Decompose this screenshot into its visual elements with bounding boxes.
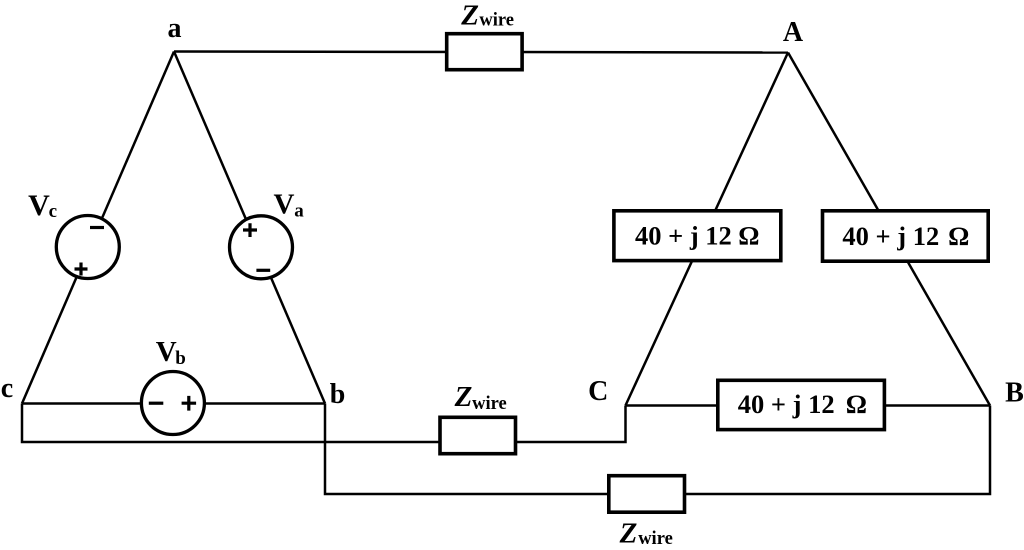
- svg-text:a: a: [168, 13, 182, 44]
- svg-text:c: c: [1, 373, 13, 404]
- svg-text:a: a: [294, 201, 304, 222]
- svg-text:40 + j 12 Ω: 40 + j 12 Ω: [738, 389, 867, 419]
- svg-text:b: b: [175, 348, 186, 369]
- svg-text:V: V: [274, 189, 295, 221]
- svg-text:B: B: [1005, 377, 1024, 408]
- svg-text:A: A: [783, 17, 804, 48]
- svg-text:Z: Z: [454, 381, 473, 413]
- svg-text:wire: wire: [472, 394, 507, 414]
- svg-text:V: V: [156, 336, 177, 368]
- svg-text:c: c: [49, 201, 57, 222]
- svg-text:Z: Z: [460, 0, 479, 32]
- svg-text:C: C: [588, 376, 608, 407]
- svg-text:V: V: [28, 189, 50, 222]
- svg-text:b: b: [330, 379, 346, 410]
- svg-text:40 + j 12 Ω: 40 + j 12 Ω: [635, 220, 759, 250]
- svg-text:40 + j 12 Ω: 40 + j 12 Ω: [842, 221, 969, 251]
- svg-text:wire: wire: [479, 11, 514, 31]
- svg-text:Z: Z: [619, 517, 638, 549]
- svg-text:wire: wire: [638, 529, 673, 549]
